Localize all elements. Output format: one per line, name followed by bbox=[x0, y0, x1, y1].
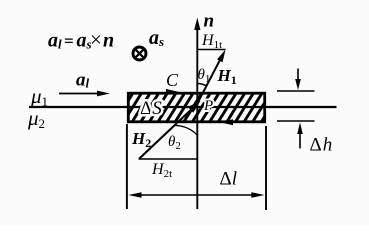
symbol a_s into page (circle-cross) bbox=[133, 47, 146, 60]
svg-text:μ2: μ2 bbox=[27, 106, 45, 131]
svg-text:Δl: Δl bbox=[220, 169, 238, 190]
vector H1 bbox=[197, 50, 225, 104]
svg-text:θ1: θ1 bbox=[198, 67, 211, 85]
Delta h upper arrow (down) bbox=[295, 69, 301, 91]
svg-text:H2: H2 bbox=[131, 129, 151, 150]
left extension line of dimension bbox=[126, 124, 128, 209]
right extension line of dimension bbox=[265, 126, 267, 210]
svg-text:al=as×n: al=as×n bbox=[48, 28, 114, 52]
hatched amperian loop rectangle bbox=[128, 93, 264, 122]
Delta h lower tick line bbox=[277, 120, 315, 122]
arrow on top edge (circulation, right) bbox=[166, 89, 179, 95]
arrow on bottom edge (circulation, left) bbox=[220, 119, 233, 125]
svg-text:P: P bbox=[203, 98, 213, 114]
angle theta1 arc bbox=[197, 84, 206, 86]
Delta h upper tick line bbox=[277, 90, 315, 92]
dimension arrow Delta l bbox=[128, 192, 264, 198]
vector H2 (arrowhead at P) bbox=[139, 101, 200, 159]
svg-text:H1t: H1t bbox=[201, 32, 222, 51]
Delta h lower arrow (up) bbox=[297, 123, 303, 149]
interface boundary line bbox=[29, 106, 337, 108]
arrow a_l direction bbox=[59, 91, 110, 97]
svg-text:al: al bbox=[76, 70, 90, 91]
svg-text:Δh: Δh bbox=[310, 135, 334, 156]
svg-text:H2t: H2t bbox=[151, 161, 172, 180]
svg-text:θ2: θ2 bbox=[168, 134, 181, 152]
svg-text:H1: H1 bbox=[217, 66, 237, 87]
normal line n through P bbox=[196, 26, 198, 209]
n arrowhead bbox=[194, 18, 200, 31]
svg-text:ΔS: ΔS bbox=[140, 98, 162, 119]
svg-text:as: as bbox=[149, 27, 164, 49]
svg-text:C: C bbox=[166, 70, 179, 90]
H2 tangential projection line bbox=[139, 158, 197, 160]
svg-text:n: n bbox=[204, 11, 215, 32]
H1 tangential projection line bbox=[197, 49, 225, 51]
angle theta2 arc bbox=[174, 125, 198, 135]
